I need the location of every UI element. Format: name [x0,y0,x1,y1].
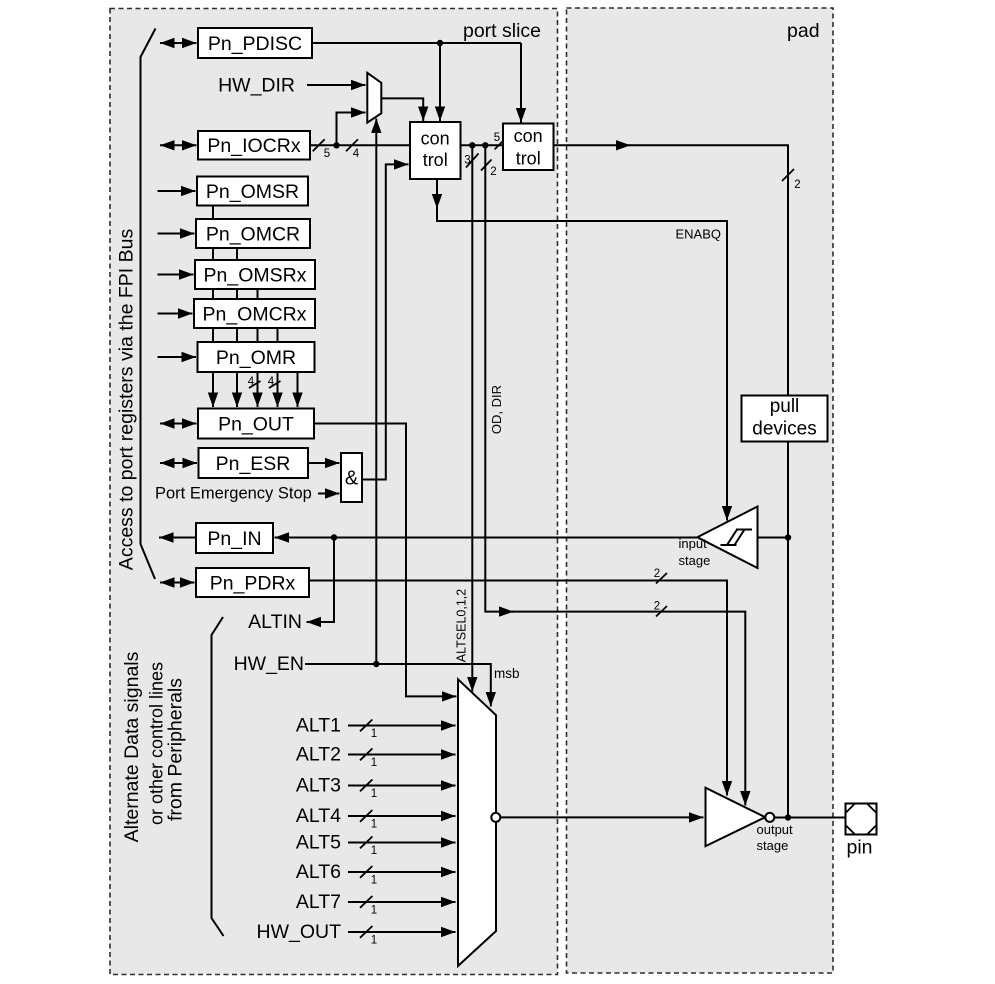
svg-text:Access to port registers via t: Access to port registers via the FPI Bus [116,229,138,571]
svg-text:&: & [345,468,359,490]
svg-text:devices: devices [752,419,816,440]
svg-text:2: 2 [794,179,800,191]
svg-text:stage: stage [679,553,711,568]
svg-text:from Peripherals: from Peripherals [165,678,187,821]
svg-text:trol: trol [516,148,541,168]
svg-text:3: 3 [464,155,470,167]
svg-text:Port Emergency Stop: Port Emergency Stop [155,485,312,503]
svg-text:Pn_OMSRx: Pn_OMSRx [204,265,307,287]
svg-text:ALT5: ALT5 [296,832,341,854]
svg-text:ENABQ: ENABQ [675,227,721,242]
svg-text:output: output [757,822,794,837]
svg-text:Pn_PDISC: Pn_PDISC [208,33,302,55]
svg-text:OD, DIR: OD, DIR [489,385,504,434]
svg-text:1: 1 [371,728,377,740]
svg-text:1: 1 [371,905,377,917]
svg-text:2: 2 [654,568,660,580]
svg-text:1: 1 [371,819,377,831]
svg-text:Pn_OMCR: Pn_OMCR [206,224,300,246]
svg-text:ALT2: ALT2 [296,744,341,766]
svg-text:4: 4 [353,148,360,160]
svg-text:or other control lines: or other control lines [147,662,167,825]
svg-text:pad: pad [787,20,820,42]
svg-text:HW_EN: HW_EN [234,653,304,675]
svg-text:1: 1 [371,788,377,800]
svg-text:ALT4: ALT4 [296,805,341,827]
svg-text:Pn_ESR: Pn_ESR [216,453,291,475]
svg-text:ALT7: ALT7 [296,891,341,913]
svg-text:Pn_OMSR: Pn_OMSR [206,181,299,203]
svg-text:HW_DIR: HW_DIR [218,75,295,97]
svg-text:ALT1: ALT1 [296,715,341,737]
svg-text:1: 1 [371,757,377,769]
svg-text:ALTIN: ALTIN [248,611,302,633]
svg-text:5: 5 [494,132,500,144]
svg-text:port slice: port slice [463,20,541,42]
svg-text:2: 2 [490,166,496,178]
svg-text:pin: pin [846,837,872,859]
svg-text:HW_OUT: HW_OUT [257,921,342,943]
svg-text:Pn_IOCRx: Pn_IOCRx [207,135,300,157]
svg-text:ALTSEL0,1,2: ALTSEL0,1,2 [455,589,469,662]
svg-text:Pn_IN: Pn_IN [207,528,261,550]
svg-text:con: con [421,128,450,148]
svg-text:ALT6: ALT6 [296,861,341,883]
svg-text:msb: msb [494,666,520,681]
svg-text:4: 4 [248,376,255,388]
svg-text:stage: stage [757,838,789,853]
svg-text:Pn_OUT: Pn_OUT [218,414,294,436]
svg-text:1: 1 [371,935,377,947]
svg-text:Pn_OMCRx: Pn_OMCRx [202,304,306,326]
svg-text:Pn_OMR: Pn_OMR [216,347,296,369]
svg-text:2: 2 [654,601,660,613]
svg-text:Alternate Data signals: Alternate Data signals [121,651,143,842]
svg-text:1: 1 [371,875,377,887]
svg-text:5: 5 [324,148,330,160]
svg-text:input: input [679,536,708,551]
svg-text:con: con [514,126,543,146]
svg-text:pull: pull [770,396,800,417]
svg-text:4: 4 [268,376,275,388]
svg-text:trol: trol [423,150,448,170]
svg-text:ALT3: ALT3 [296,775,341,797]
svg-text:1: 1 [371,845,377,857]
svg-text:Pn_PDRx: Pn_PDRx [210,573,296,595]
